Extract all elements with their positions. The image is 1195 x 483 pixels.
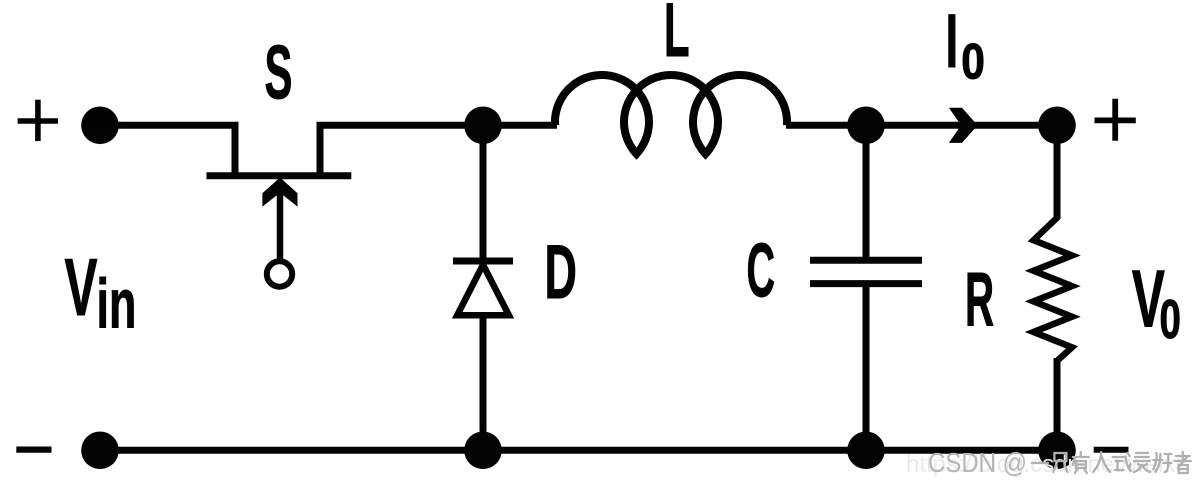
node Vin+ terminal dot — [81, 107, 119, 145]
watermark text — [928, 447, 1191, 478]
wire inductor to node B — [786, 122, 866, 129]
wire from switch to node A — [320, 125, 483, 177]
node B junction dot — [847, 107, 885, 145]
svg-text:D: D — [545, 231, 577, 315]
node D-bottom junction dot — [464, 432, 502, 470]
diode D triangle — [457, 265, 509, 316]
label Vo — [1132, 254, 1181, 350]
svg-text:S: S — [265, 29, 293, 115]
inductor L coil — [555, 75, 787, 154]
capacitor C top wire — [863, 125, 870, 260]
svg-text:0: 0 — [1160, 289, 1181, 350]
capacitor C plates — [810, 260, 922, 283]
svg-text:R: R — [965, 257, 994, 342]
resistor R zigzag — [1034, 217, 1073, 360]
svg-text:I: I — [946, 0, 959, 84]
diode D cathode bar — [453, 258, 513, 265]
minus output sign — [1094, 447, 1129, 453]
svg-text:L: L — [664, 0, 690, 72]
plus terminal sign (input +) — [18, 100, 58, 141]
svg-text:in: in — [97, 266, 137, 343]
svg-text:CSDN @: CSDN @ — [928, 447, 1027, 478]
resistor R top wire — [1054, 125, 1061, 219]
switch S gate terminal circle — [267, 261, 292, 286]
node C junction dot — [1038, 107, 1076, 145]
node Vin- terminal dot — [81, 432, 119, 470]
resistor R bottom wire — [1054, 358, 1061, 450]
capacitor C bottom wire — [863, 284, 870, 451]
switch S gate arrowhead — [262, 178, 297, 207]
wire top rail from Vin+ to switch — [100, 125, 235, 177]
switch S channel bar — [207, 172, 352, 179]
wire bottom rail — [100, 447, 1057, 454]
node C-bottom junction dot — [847, 432, 885, 470]
svg-text:C: C — [747, 227, 776, 312]
plus output sign — [1095, 99, 1136, 141]
diode D lower wire — [480, 315, 487, 450]
wire node B to node C with output current — [866, 122, 1057, 129]
wire node A to inductor — [483, 122, 557, 129]
label Vin — [65, 243, 137, 343]
current arrow Io — [949, 108, 978, 143]
minus terminal sign (input -) — [16, 446, 51, 452]
node A junction dot — [464, 107, 502, 145]
node Vo- junction dot — [1038, 432, 1076, 470]
svg-text:V: V — [65, 243, 98, 334]
diode D anode wire — [480, 125, 487, 264]
label Io — [946, 0, 985, 89]
switch S gate wire — [277, 184, 284, 259]
svg-text:0: 0 — [961, 33, 985, 89]
